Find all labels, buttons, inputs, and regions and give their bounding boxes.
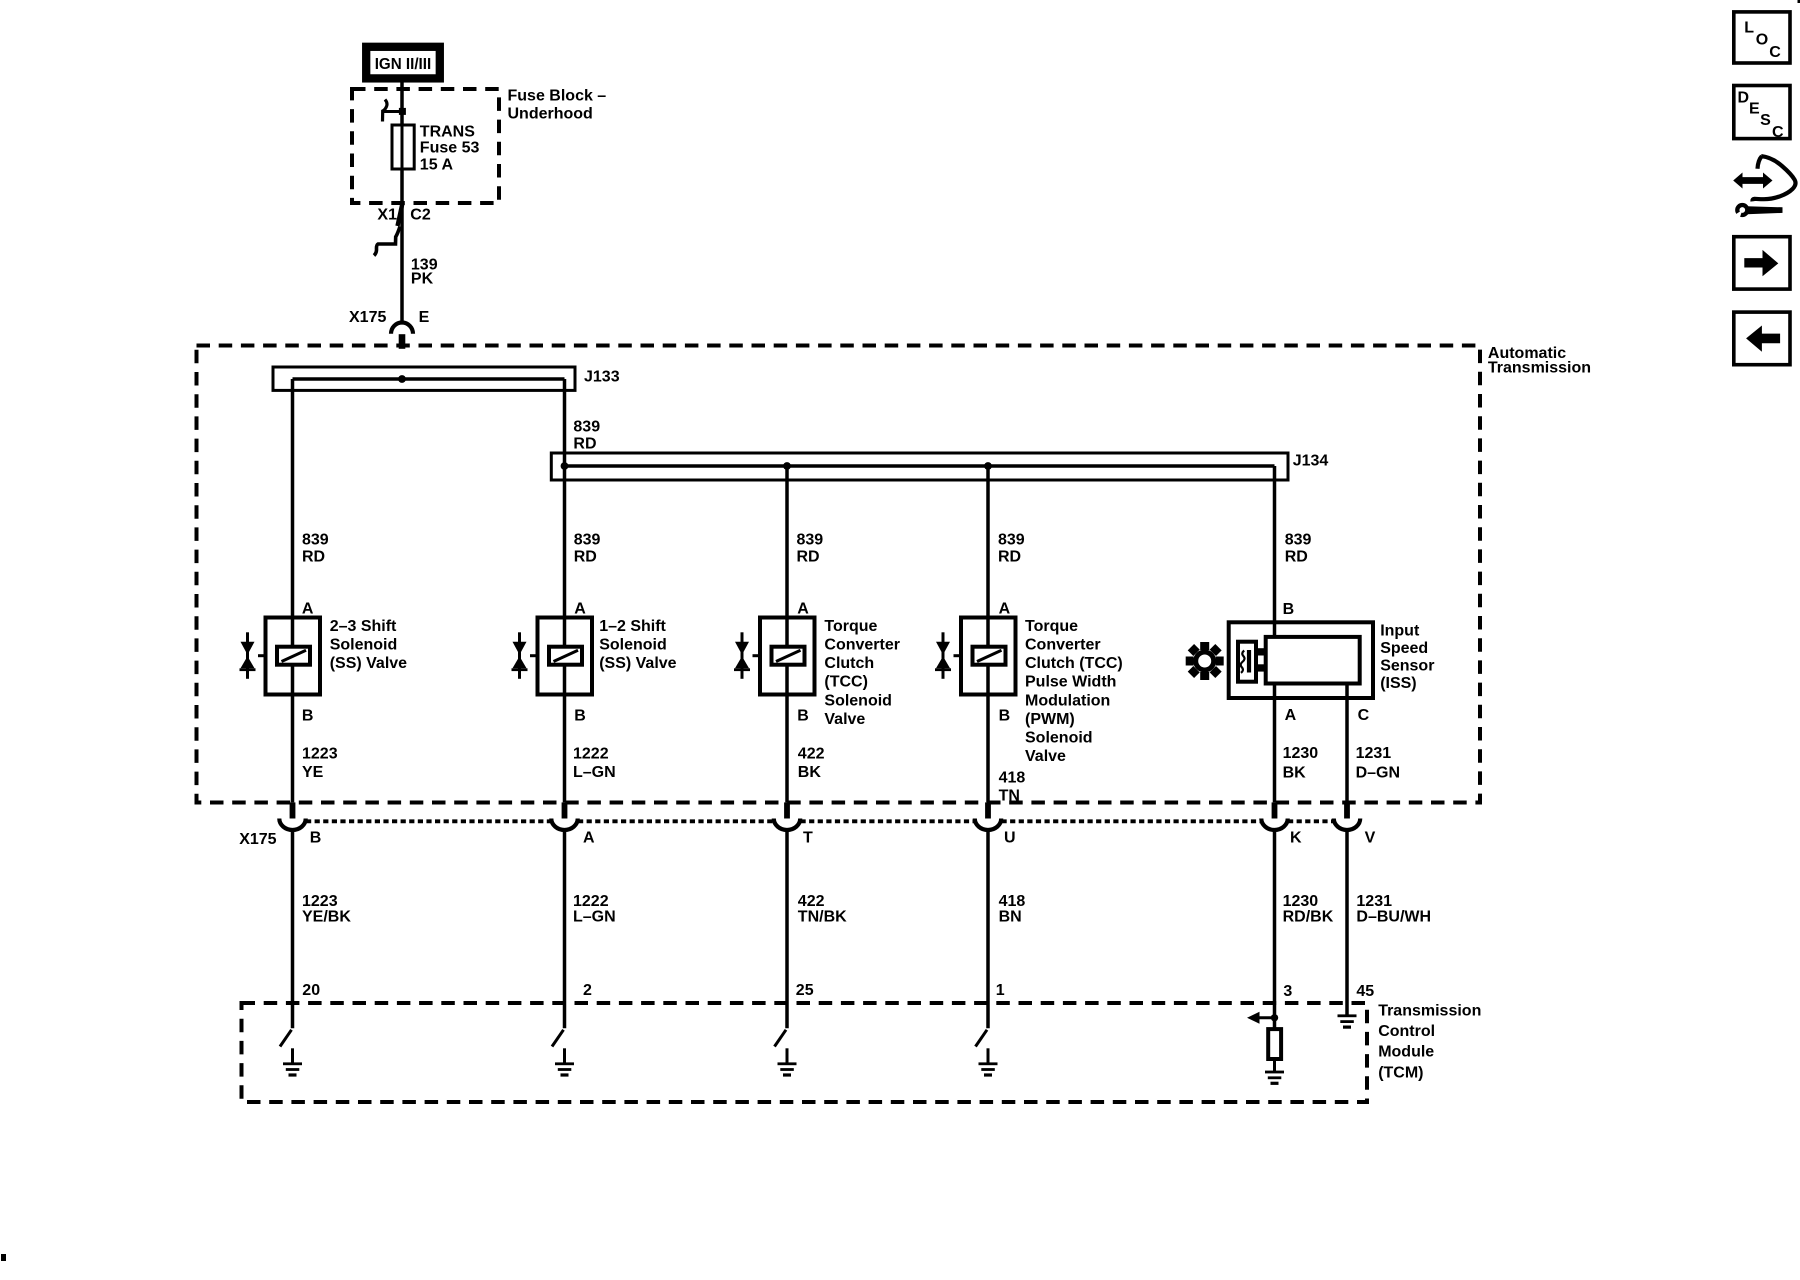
- svg-text:25: 25: [796, 982, 814, 999]
- svg-text:A: A: [999, 600, 1011, 617]
- svg-text:B: B: [302, 708, 314, 725]
- solenoid S1 box (2-3 shift): [266, 618, 321, 695]
- svg-text:RD: RD: [573, 436, 596, 453]
- TCM switch lever pin 2: [552, 1030, 564, 1047]
- connector X175 pin U stub: [985, 802, 991, 818]
- solenoid S2 stub: [530, 654, 539, 657]
- svg-text:BN: BN: [999, 909, 1022, 926]
- solenoid S2 box (1-2 shift): [538, 618, 593, 695]
- svg-text:Torque: Torque: [824, 618, 877, 635]
- svg-text:A: A: [1285, 707, 1297, 724]
- ground inside TCM pin 1: [979, 1048, 998, 1076]
- svg-text:Solenoid: Solenoid: [824, 692, 892, 709]
- solenoid S3 box (TCC): [760, 618, 815, 695]
- svg-text:RD: RD: [998, 549, 1021, 566]
- svg-text:1222: 1222: [573, 746, 609, 763]
- svg-text:E: E: [1749, 100, 1760, 117]
- svg-text:U: U: [1004, 829, 1016, 846]
- ISS pickup coil squiggle: [1241, 651, 1245, 673]
- terminal clip in fuse block: [383, 100, 406, 122]
- svg-text:Torque: Torque: [1025, 618, 1078, 635]
- svg-text:Clutch: Clutch: [824, 655, 874, 672]
- solenoid S4 stub: [954, 654, 963, 657]
- svg-text:Solenoid: Solenoid: [599, 637, 667, 654]
- svg-text:IGN II/III: IGN II/III: [375, 56, 432, 73]
- svg-text:V: V: [1365, 829, 1376, 846]
- solenoid S1 valve symbol: [240, 632, 256, 679]
- svg-text:X1: X1: [377, 207, 397, 224]
- wire 1222 L-GN to TCM pin 2: [563, 830, 567, 1028]
- wire 1223 YE/BK to TCM pin 20: [291, 830, 295, 1028]
- svg-text:Clutch (TCC): Clutch (TCC): [1025, 655, 1123, 672]
- svg-text:E: E: [419, 309, 430, 326]
- junction dot J134 left: [561, 462, 569, 470]
- wire 139 PK: IGN to fuse to X175 E: [400, 81, 404, 323]
- ground inside TCM pin 2: [555, 1048, 574, 1076]
- wire 839 RD: J134 to ISS pin B: [1273, 466, 1277, 637]
- ISS pickup link bottom: [1255, 664, 1266, 671]
- resistor inside TCM: [1268, 1029, 1281, 1059]
- svg-text:2: 2: [583, 982, 592, 999]
- wire resistor to ground: [1273, 1059, 1276, 1071]
- solenoid S4 valve symbol: [935, 632, 951, 679]
- svg-text:839: 839: [573, 418, 600, 435]
- svg-text:TN: TN: [999, 787, 1020, 804]
- svg-text:C: C: [1358, 707, 1370, 724]
- wire 1231 D-GN: ISS pin C down: [1345, 684, 1349, 803]
- fuse TRANS 53: [392, 125, 414, 169]
- svg-text:(PWM): (PWM): [1025, 711, 1075, 728]
- svg-text:Modulation: Modulation: [1025, 692, 1110, 709]
- solenoid S4 coil: [973, 647, 1006, 665]
- TCM switch lever pin 25: [775, 1030, 787, 1047]
- svg-text:839: 839: [302, 531, 329, 548]
- wire 1230 BK: ISS pin A down: [1273, 684, 1277, 803]
- ground inside TCM pin 45: [1338, 1014, 1357, 1028]
- svg-text:Converter: Converter: [1025, 637, 1101, 654]
- connector X175 pin E stub: [399, 334, 406, 349]
- input speed sensor body rect: [1266, 637, 1360, 684]
- wire 839 RD: J133 to J134 to 1-2 shift solenoid to X175 A: [563, 379, 567, 802]
- power feed label box IGN II/III: [366, 47, 440, 79]
- svg-text:Converter: Converter: [824, 637, 900, 654]
- icon next arrow button: [1734, 237, 1790, 289]
- svg-text:D–GN: D–GN: [1356, 764, 1400, 781]
- svg-text:TN/BK: TN/BK: [798, 909, 847, 926]
- svg-text:T: T: [803, 829, 813, 846]
- junction dot J134 right: [984, 462, 992, 470]
- automatic transmission dashed box: [197, 346, 1481, 803]
- svg-text:Speed: Speed: [1380, 640, 1428, 657]
- svg-text:Valve: Valve: [824, 711, 865, 728]
- svg-text:RD: RD: [302, 549, 325, 566]
- svg-text:B: B: [999, 708, 1011, 725]
- svg-text:Input: Input: [1380, 623, 1420, 640]
- solenoid S4 box (TCC PWM): [961, 618, 1016, 695]
- ISS pickup core bar: [1247, 650, 1251, 673]
- splice J134 bus line: [565, 464, 1275, 468]
- svg-text:(ISS): (ISS): [1380, 675, 1416, 692]
- svg-text:S: S: [1760, 112, 1771, 129]
- connector X175 pin U cup: [975, 819, 1001, 831]
- svg-text:J134: J134: [1293, 453, 1329, 470]
- ground inside TCM pin 20: [283, 1048, 302, 1076]
- icon DESC button: [1734, 86, 1790, 142]
- connector X175 pin K stub: [1272, 802, 1278, 818]
- page speck top right: [1798, 0, 1800, 3]
- svg-text:J133: J133: [584, 368, 620, 385]
- svg-text:PK: PK: [411, 270, 434, 287]
- connector X175 pin T stub: [784, 802, 790, 818]
- svg-text:839: 839: [1285, 531, 1312, 548]
- connector X175 pin E dome: [391, 323, 413, 334]
- svg-text:C2: C2: [410, 207, 431, 224]
- solenoid S1 stub: [258, 654, 267, 657]
- icon LOC button: [1734, 12, 1790, 63]
- solenoid S2 coil: [549, 647, 582, 665]
- svg-text:Underhood: Underhood: [508, 106, 593, 123]
- svg-text:D: D: [1738, 90, 1750, 107]
- svg-text:A: A: [797, 600, 809, 617]
- svg-text:Transmission: Transmission: [1378, 1003, 1481, 1020]
- TCM switch lever pin 20: [280, 1030, 292, 1047]
- ground inside TCM pin 3: [1265, 1071, 1284, 1085]
- svg-text:K: K: [1290, 829, 1302, 846]
- solenoid S1 coil: [277, 647, 310, 665]
- svg-text:Solenoid: Solenoid: [1025, 730, 1093, 747]
- connector X175 pin B cup: [279, 819, 305, 831]
- wire 422 TN/BK to TCM pin 25: [785, 830, 789, 1028]
- svg-text:Pulse Width: Pulse Width: [1025, 674, 1116, 691]
- svg-text:Transmission: Transmission: [1488, 360, 1591, 377]
- svg-text:Control: Control: [1378, 1023, 1435, 1040]
- svg-text:(SS) Valve: (SS) Valve: [330, 655, 407, 672]
- svg-text:L–GN: L–GN: [573, 909, 616, 926]
- svg-text:839: 839: [797, 531, 824, 548]
- svg-text:A: A: [574, 600, 586, 617]
- svg-text:A: A: [583, 829, 595, 846]
- svg-text:L: L: [1744, 19, 1754, 36]
- svg-text:RD: RD: [574, 549, 597, 566]
- svg-text:45: 45: [1356, 983, 1374, 1000]
- gear icon: [1177, 633, 1232, 688]
- terminal clip at X1/C2: [374, 227, 400, 256]
- svg-text:B: B: [574, 708, 586, 725]
- svg-text:B: B: [797, 708, 809, 725]
- TCM switch lever pin 1: [976, 1030, 988, 1047]
- svg-text:BK: BK: [1283, 764, 1307, 781]
- ISS pickup link top: [1255, 648, 1266, 655]
- svg-text:(TCM): (TCM): [1378, 1064, 1423, 1081]
- connector X175 pin A cup: [551, 819, 577, 831]
- svg-text:20: 20: [302, 982, 320, 999]
- connector X175 pin A stub: [562, 802, 568, 818]
- wire through fuse: [401, 125, 404, 169]
- svg-text:D–BU/WH: D–BU/WH: [1356, 909, 1431, 926]
- ground inside TCM pin 25: [778, 1048, 797, 1076]
- svg-text:YE: YE: [302, 764, 324, 781]
- connector X175 pin V cup: [1334, 819, 1360, 830]
- svg-text:839: 839: [574, 531, 601, 548]
- svg-text:15 A: 15 A: [420, 157, 454, 174]
- svg-text:BK: BK: [798, 764, 822, 781]
- svg-text:1230: 1230: [1283, 745, 1319, 762]
- svg-text:RD: RD: [797, 549, 820, 566]
- connector X175 dotted line: [306, 819, 1334, 823]
- wire 1231 D-BU/WH to TCM pin 45: [1345, 830, 1349, 1015]
- TCM dashed box: [242, 1003, 1368, 1102]
- svg-text:1: 1: [996, 982, 1005, 999]
- svg-text:TRANS: TRANS: [420, 124, 475, 141]
- svg-text:1231: 1231: [1356, 745, 1392, 762]
- svg-text:Valve: Valve: [1025, 748, 1066, 765]
- wire 839 RD: J133 to 2-3 shift solenoid to X175 B: [291, 379, 295, 802]
- splice bar J133 outline: [273, 367, 575, 390]
- splice bar J134 outline: [551, 453, 1288, 480]
- wire 839 RD: J134 to TCC solenoid to X175 T: [785, 466, 789, 802]
- svg-text:B: B: [1283, 601, 1295, 618]
- page speck bottom left: [1, 1254, 6, 1261]
- input speed sensor outer box: [1229, 622, 1373, 698]
- junction dot J134 mid: [783, 462, 791, 470]
- svg-text:Module: Module: [1378, 1044, 1434, 1061]
- connector X1/C2 slash: [398, 203, 403, 226]
- svg-text:Sensor: Sensor: [1380, 658, 1434, 675]
- svg-text:Fuse Block –: Fuse Block –: [508, 87, 607, 104]
- wire 1230 RD/BK to TCM pin 3: [1273, 830, 1277, 1029]
- svg-text:422: 422: [798, 746, 825, 763]
- solenoid S3 stub: [753, 654, 762, 657]
- svg-text:RD: RD: [1285, 549, 1308, 566]
- svg-text:O: O: [1756, 31, 1768, 48]
- ISS pickup rect: [1238, 642, 1256, 682]
- solenoid S3 valve symbol: [734, 632, 750, 679]
- svg-text:C: C: [1769, 44, 1781, 61]
- icon harness routing scribble: [1733, 156, 1795, 222]
- wire 418 BN to TCM pin 1: [986, 830, 990, 1028]
- svg-text:X175: X175: [239, 831, 276, 848]
- svg-text:Fuse 53: Fuse 53: [420, 140, 480, 157]
- connector X175 pin B stub: [290, 802, 296, 818]
- connector X175 pin T cup: [774, 819, 800, 831]
- wire 839 RD: J134 to TCC PWM solenoid to X175 U: [986, 466, 990, 802]
- svg-text:3: 3: [1283, 983, 1292, 1000]
- fuse block underhood dashed box: [352, 89, 499, 203]
- svg-text:YE/BK: YE/BK: [302, 909, 351, 926]
- svg-text:839: 839: [998, 531, 1025, 548]
- svg-text:RD/BK: RD/BK: [1283, 909, 1334, 926]
- svg-text:2–3 Shift: 2–3 Shift: [330, 618, 397, 635]
- svg-text:B: B: [310, 829, 322, 846]
- svg-text:(SS) Valve: (SS) Valve: [599, 655, 676, 672]
- svg-text:1223: 1223: [302, 746, 338, 763]
- svg-text:1–2 Shift: 1–2 Shift: [599, 618, 666, 635]
- svg-text:A: A: [302, 600, 314, 617]
- connector X175 pin V stub: [1344, 802, 1350, 818]
- junction dot at J133: [398, 375, 406, 383]
- svg-text:X175: X175: [349, 309, 386, 326]
- signal arrow at TCM pin 3: [1247, 1012, 1275, 1024]
- svg-text:418: 418: [999, 769, 1026, 786]
- connector X175 pin K cup: [1261, 819, 1287, 830]
- junction dot TCM pin 3: [1271, 1014, 1278, 1021]
- svg-text:(TCC): (TCC): [824, 674, 868, 691]
- splice J133 bus line: [293, 377, 565, 381]
- svg-text:L–GN: L–GN: [573, 764, 616, 781]
- solenoid S3 coil: [772, 647, 805, 665]
- solenoid S2 valve symbol: [512, 632, 528, 679]
- svg-text:Solenoid: Solenoid: [330, 637, 398, 654]
- icon back arrow button: [1734, 312, 1790, 365]
- svg-text:C: C: [1772, 124, 1784, 141]
